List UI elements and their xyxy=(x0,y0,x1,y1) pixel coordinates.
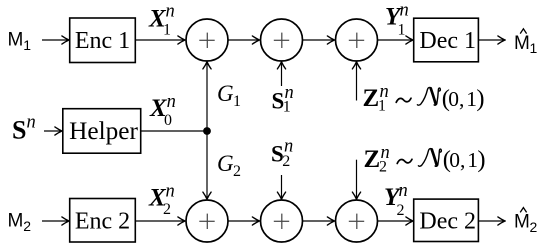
svg-text:G: G xyxy=(217,151,234,176)
block Enc 2 xyxy=(70,199,136,243)
svg-text:2: 2 xyxy=(233,163,241,180)
label M2 xyxy=(8,211,32,234)
svg-text:2: 2 xyxy=(163,201,171,218)
block Helper xyxy=(63,109,141,154)
svg-text:M: M xyxy=(514,33,530,54)
svg-text:2: 2 xyxy=(23,218,31,234)
wire S2n to B2 xyxy=(281,175,283,199)
svg-text:0,: 0, xyxy=(448,87,464,111)
wire Helper to node xyxy=(141,130,207,132)
svg-text:Enc 2: Enc 2 xyxy=(75,209,130,235)
adder A2 xyxy=(261,19,303,61)
svg-text:2: 2 xyxy=(530,219,538,235)
wire G1 from node to A1 xyxy=(206,62,208,131)
label X0n xyxy=(149,92,176,129)
wire Z2n to B3 xyxy=(356,160,358,199)
svg-text:Dec 2: Dec 2 xyxy=(419,209,476,235)
svg-text:): ) xyxy=(476,85,484,112)
wire Dec 2 to M2hat xyxy=(478,220,504,222)
wire S1n to A2 xyxy=(281,62,283,86)
svg-text:n: n xyxy=(400,1,409,21)
adder B2 xyxy=(261,200,303,242)
wire Sn to Helper xyxy=(44,130,62,132)
svg-text:Dec 1: Dec 1 xyxy=(419,28,476,54)
label G1 xyxy=(217,81,241,110)
svg-text:Enc 1: Enc 1 xyxy=(75,28,130,54)
svg-text:1: 1 xyxy=(378,97,386,114)
adder A1 xyxy=(186,19,228,61)
svg-text:M: M xyxy=(8,30,24,51)
svg-text:1: 1 xyxy=(398,22,406,39)
block Enc 1 xyxy=(70,18,136,63)
label S1n xyxy=(272,83,294,115)
label X2n xyxy=(148,181,175,218)
label Z1n ~ N(0,1) xyxy=(363,82,485,115)
wire A3 to Dec 1 xyxy=(378,39,413,41)
svg-text:M: M xyxy=(8,211,24,232)
svg-text:1: 1 xyxy=(283,98,291,115)
wire A1 to A2 xyxy=(228,39,259,41)
svg-text:0,: 0, xyxy=(449,148,465,172)
svg-text:M: M xyxy=(514,212,530,233)
wire B3 to Dec 2 xyxy=(378,220,413,222)
wire A2 to A3 xyxy=(303,39,335,41)
svg-text:n: n xyxy=(167,92,176,112)
svg-text:S: S xyxy=(12,115,26,144)
svg-text:2: 2 xyxy=(282,153,290,170)
svg-text:Helper: Helper xyxy=(69,117,138,145)
label Sn xyxy=(12,113,36,145)
svg-text:0: 0 xyxy=(164,112,172,129)
wire M2 to Enc 2 xyxy=(42,220,69,222)
label Y2n xyxy=(384,181,408,219)
svg-text:1: 1 xyxy=(23,37,31,53)
label Y1n xyxy=(385,1,409,39)
node junction dot xyxy=(203,127,211,135)
wire B2 to B3 xyxy=(303,220,335,222)
svg-text:1: 1 xyxy=(530,40,538,56)
svg-text:Z: Z xyxy=(363,85,380,112)
svg-text:n: n xyxy=(27,113,36,133)
label G2 xyxy=(217,151,241,180)
wire G2 from node to B1 xyxy=(206,131,208,199)
label M1 xyxy=(8,30,32,53)
wire Enc 1 to adder A1 xyxy=(135,39,184,41)
block Dec 1 xyxy=(414,18,479,62)
svg-text:2: 2 xyxy=(397,202,405,219)
svg-text:1: 1 xyxy=(163,22,171,39)
block Dec 2 xyxy=(414,199,479,241)
wire M1 to Enc 1 xyxy=(42,39,69,41)
label M2hat xyxy=(514,208,538,235)
adder A3 xyxy=(336,19,378,61)
wire Dec 1 to M1hat xyxy=(478,39,504,41)
label Z2n ~ N(0,1) xyxy=(364,143,486,176)
adder B1 xyxy=(186,200,228,242)
svg-text:1: 1 xyxy=(233,93,241,110)
label M1hat xyxy=(514,29,538,56)
svg-text:n: n xyxy=(399,181,408,201)
svg-text:Z: Z xyxy=(364,146,381,173)
wire Enc 2 to adder B1 xyxy=(135,220,184,222)
wire Z1n to A3 xyxy=(356,62,358,100)
svg-text:n: n xyxy=(166,181,175,201)
adder B3 xyxy=(336,200,378,242)
label X1n xyxy=(148,2,175,39)
svg-text:): ) xyxy=(477,146,485,173)
wire B1 to B2 xyxy=(228,220,259,222)
svg-text:2: 2 xyxy=(379,159,387,176)
svg-text:n: n xyxy=(166,2,175,22)
svg-text:G: G xyxy=(217,81,234,106)
label S2n xyxy=(271,136,293,170)
